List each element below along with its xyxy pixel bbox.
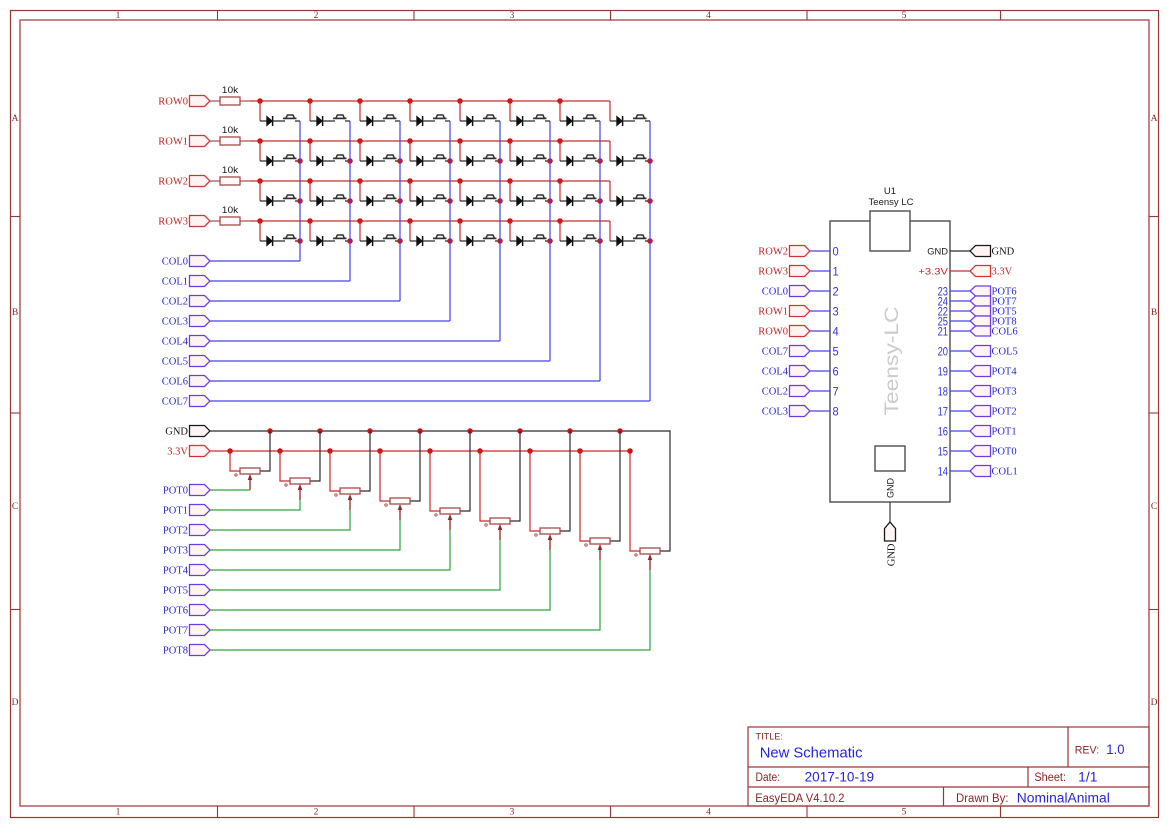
netflag 3.3V (pot bank) bbox=[190, 446, 211, 457]
svg-text:COL4: COL4 bbox=[162, 337, 189, 348]
junction switch output to COL1 bbox=[347, 158, 353, 164]
svg-text:ROW1: ROW1 bbox=[158, 137, 188, 148]
wire wiper to POT8 bbox=[210, 570, 650, 650]
junction ROW1 col2 bbox=[357, 138, 363, 144]
wire COL5 horizontal bbox=[210, 360, 550, 362]
wire drop ROW0 cell3 bbox=[409, 101, 411, 121]
wire wiper to POT6 bbox=[210, 550, 550, 610]
key switch S24 bbox=[633, 195, 650, 201]
wire ROW3 horizontal bus bbox=[250, 220, 610, 222]
junction 3.3V bus pot5 bbox=[477, 448, 483, 454]
junction switch output to COL6 bbox=[597, 198, 603, 204]
wire COL4 vertical bbox=[499, 121, 501, 341]
wire COL7 horizontal bbox=[210, 400, 650, 402]
U1 USB connector block bbox=[870, 211, 910, 251]
svg-text:8: 8 bbox=[833, 404, 839, 418]
potentiometer RP6 body bbox=[490, 518, 510, 524]
pin-1 marker RP7 bbox=[535, 534, 537, 536]
wire drop ROW0 cell6 bbox=[559, 101, 561, 121]
wire netflag COL7 to U1 pin 5 bbox=[810, 350, 830, 352]
key switch S23 bbox=[583, 195, 600, 201]
svg-text:21: 21 bbox=[938, 324, 949, 338]
wire drop ROW3 cell1 bbox=[309, 221, 311, 241]
diode D5 bbox=[460, 116, 485, 126]
junction switch output to COL6 bbox=[597, 158, 603, 164]
diode D18 bbox=[310, 196, 335, 206]
wire COL0 horizontal bbox=[210, 260, 300, 262]
netflag POT8 bbox=[190, 645, 211, 656]
wire U1 pin 21 to netflag COL6 bbox=[950, 330, 970, 332]
netflag COL7 (U1 left) bbox=[790, 346, 811, 357]
wire drop ROW2 cell1 bbox=[309, 181, 311, 201]
key switch S11 bbox=[383, 155, 400, 161]
junction ROW0 col6 bbox=[557, 98, 563, 104]
junction switch output to COL0 bbox=[297, 158, 303, 164]
wire ROW1 horizontal bus bbox=[250, 140, 610, 142]
wire 3.3V to RP2 bbox=[280, 451, 290, 481]
svg-text:TITLE:: TITLE: bbox=[756, 732, 783, 743]
svg-text:Date:: Date: bbox=[756, 772, 781, 784]
potentiometer RP4 body bbox=[390, 498, 410, 504]
svg-text:ROW2: ROW2 bbox=[758, 247, 788, 258]
wire drop ROW2 cell2 bbox=[359, 181, 361, 201]
svg-text:A: A bbox=[12, 114, 19, 124]
pin-1 marker RP5 bbox=[435, 514, 437, 516]
wiper arrow RP8 bbox=[598, 544, 603, 560]
wiper arrow RP5 bbox=[448, 514, 453, 530]
diode D7 bbox=[560, 116, 585, 126]
svg-text:New Schematic: New Schematic bbox=[760, 745, 863, 762]
diode D17 bbox=[260, 196, 285, 206]
junction ROW1 col5 bbox=[507, 138, 513, 144]
svg-text:10k: 10k bbox=[222, 165, 239, 175]
svg-text:COL2: COL2 bbox=[762, 387, 788, 398]
junction switch output to COL3 bbox=[447, 238, 453, 244]
wire COL2 vertical bbox=[399, 121, 401, 301]
svg-text:ROW2: ROW2 bbox=[158, 177, 188, 188]
resistor R4 10k bbox=[220, 217, 240, 225]
svg-text:1: 1 bbox=[116, 11, 121, 21]
wire COL1 vertical bbox=[349, 121, 351, 281]
svg-text:COL5: COL5 bbox=[992, 347, 1018, 358]
junction 3.3V bus pot4 bbox=[427, 448, 433, 454]
junction GND bus pot3 bbox=[417, 428, 423, 434]
wire GND bus bbox=[210, 431, 670, 551]
netflag COL7 bbox=[190, 396, 211, 407]
netflag COL5 (U1 right) bbox=[970, 346, 991, 357]
junction switch output to COL1 bbox=[347, 198, 353, 204]
key switch S21 bbox=[483, 195, 500, 201]
key switch S17 bbox=[283, 195, 300, 201]
potentiometer RP7 body bbox=[540, 528, 560, 534]
wire drop ROW3 cell3 bbox=[409, 221, 411, 241]
wire U1 pin 16 to netflag POT1 bbox=[950, 430, 970, 432]
wire drop ROW2 cell6 bbox=[559, 181, 561, 201]
netflag POT7 bbox=[190, 625, 211, 636]
svg-text:1: 1 bbox=[833, 264, 839, 278]
wire U1 pin GND to netflag GND bbox=[950, 250, 970, 252]
netflag COL0 bbox=[190, 256, 211, 267]
wire netflag to R4 bbox=[210, 220, 220, 222]
key switch S30 bbox=[533, 235, 550, 241]
netflag GND (pot bank) bbox=[190, 426, 211, 437]
wire drop ROW1 cell0 bbox=[259, 141, 261, 161]
wire 3.3V to RP4 bbox=[380, 451, 390, 501]
pin-1 marker RP3 bbox=[335, 494, 337, 496]
junction switch output to COL4 bbox=[497, 198, 503, 204]
wire 3.3V bus bbox=[210, 451, 640, 551]
wire netflag to R1 bbox=[210, 100, 220, 102]
wire COL5 vertical bbox=[549, 121, 551, 361]
diode D12 bbox=[410, 156, 435, 166]
junction ROW0 col3 bbox=[407, 98, 413, 104]
junction GND bus pot4 bbox=[467, 428, 473, 434]
diode D19 bbox=[360, 196, 385, 206]
key switch S28 bbox=[433, 235, 450, 241]
svg-text:1/1: 1/1 bbox=[1078, 770, 1097, 785]
svg-text:COL0: COL0 bbox=[162, 257, 188, 268]
junction ROW1 col1 bbox=[307, 138, 313, 144]
svg-text:3.3V: 3.3V bbox=[167, 447, 188, 458]
svg-text:D: D bbox=[12, 698, 19, 708]
svg-text:GND: GND bbox=[887, 543, 898, 566]
svg-text:COL1: COL1 bbox=[162, 277, 188, 288]
junction ROW1 col0 bbox=[257, 138, 263, 144]
svg-text:20: 20 bbox=[938, 344, 949, 358]
junction ROW0 col4 bbox=[457, 98, 463, 104]
junction ROW3 col0 bbox=[257, 218, 263, 224]
svg-text:U1: U1 bbox=[884, 186, 896, 197]
svg-text:4: 4 bbox=[833, 324, 839, 338]
wire COL3 horizontal bbox=[210, 320, 450, 322]
svg-text:POT4: POT4 bbox=[992, 367, 1018, 378]
junction GND bus pot1 bbox=[317, 428, 323, 434]
svg-text:1.0: 1.0 bbox=[1106, 742, 1124, 757]
diode D31 bbox=[560, 236, 585, 246]
diode D28 bbox=[410, 236, 435, 246]
wire drop ROW0 cell4 bbox=[459, 101, 461, 121]
junction ROW2 col5 bbox=[507, 178, 513, 184]
resistor R1 right pin stub bbox=[240, 100, 250, 102]
diode D10 bbox=[310, 156, 335, 166]
svg-text:C: C bbox=[1151, 502, 1157, 512]
wiper arrow RP7 bbox=[548, 534, 553, 550]
svg-text:POT6: POT6 bbox=[163, 606, 188, 617]
diode D24 bbox=[610, 196, 635, 206]
svg-text:10k: 10k bbox=[222, 125, 239, 135]
wire netflag COL3 to U1 pin 8 bbox=[810, 410, 830, 412]
diode D13 bbox=[460, 156, 485, 166]
svg-text:POT5: POT5 bbox=[163, 586, 188, 597]
pin-1 marker RP9 bbox=[635, 554, 637, 556]
svg-text:2: 2 bbox=[314, 11, 319, 21]
junction switch output to COL5 bbox=[547, 198, 553, 204]
wire ROW2 horizontal bus bbox=[250, 180, 610, 182]
netflag GND (U1 right) bbox=[970, 246, 991, 257]
svg-text:GND: GND bbox=[992, 247, 1015, 258]
wire wiper to POT2 bbox=[210, 510, 350, 530]
svg-text:10k: 10k bbox=[222, 205, 239, 215]
diode D27 bbox=[360, 236, 385, 246]
wire drop ROW3 cell7 bbox=[609, 221, 611, 241]
svg-text:ROW1: ROW1 bbox=[758, 307, 788, 318]
netflag POT8 (U1 right) bbox=[970, 316, 991, 326]
diode D22 bbox=[510, 196, 535, 206]
wire COL1 horizontal bbox=[210, 280, 350, 282]
diode D8 bbox=[610, 116, 635, 126]
svg-text:3: 3 bbox=[833, 304, 839, 318]
wire drop ROW0 cell0 bbox=[259, 101, 261, 121]
netflag ROW2 bbox=[190, 176, 211, 187]
netflag POT1 bbox=[190, 505, 211, 516]
resistor R2 10k bbox=[220, 137, 240, 145]
svg-text:3.3V: 3.3V bbox=[992, 267, 1013, 278]
netflag ROW2 (U1 left) bbox=[790, 246, 811, 257]
svg-text:2: 2 bbox=[833, 284, 839, 298]
netflag COL2 (U1 left) bbox=[790, 386, 811, 397]
netflag 3.3V (U1 right) bbox=[970, 266, 991, 277]
junction 3.3V bus pot8 bbox=[627, 448, 633, 454]
junction switch output to COL4 bbox=[497, 158, 503, 164]
svg-text:POT8: POT8 bbox=[163, 646, 188, 657]
svg-text:7: 7 bbox=[833, 384, 839, 398]
svg-text:+3.3V: +3.3V bbox=[918, 266, 948, 277]
junction switch output to COL2 bbox=[397, 198, 403, 204]
potentiometer RP9 body bbox=[640, 548, 660, 554]
wire U1 pin 14 to netflag COL1 bbox=[950, 470, 970, 472]
svg-text:A: A bbox=[1151, 114, 1158, 124]
wire drop ROW3 cell6 bbox=[559, 221, 561, 241]
netflag ROW0 (U1 left) bbox=[790, 326, 811, 337]
junction GND bus pot0 bbox=[267, 428, 273, 434]
resistor R4 right pin stub bbox=[240, 220, 250, 222]
diode D32 bbox=[610, 236, 635, 246]
wire GND to RP3 bbox=[360, 431, 370, 491]
netflag ROW1 (U1 left) bbox=[790, 306, 811, 317]
svg-text:POT0: POT0 bbox=[992, 447, 1017, 458]
key switch S3 bbox=[383, 115, 400, 121]
diode D26 bbox=[310, 236, 335, 246]
netflag POT3 bbox=[190, 545, 211, 556]
wire netflag COL0 to U1 pin 2 bbox=[810, 290, 830, 292]
potentiometer RP2 body bbox=[290, 478, 310, 484]
svg-text:Sheet:: Sheet: bbox=[1034, 772, 1066, 784]
diode D1 bbox=[260, 116, 285, 126]
wire COL6 vertical bbox=[599, 121, 601, 381]
key switch S9 bbox=[283, 155, 300, 161]
wire COL4 horizontal bbox=[210, 340, 500, 342]
wire GND to RP2 bbox=[310, 431, 320, 481]
diode D9 bbox=[260, 156, 285, 166]
svg-text:19: 19 bbox=[938, 364, 949, 378]
potentiometer RP5 body bbox=[440, 508, 460, 514]
junction 3.3V bus pot6 bbox=[527, 448, 533, 454]
U1 inner square block bbox=[875, 446, 905, 471]
wiper arrow RP4 bbox=[398, 504, 403, 520]
svg-text:GND: GND bbox=[927, 246, 948, 257]
diode D15 bbox=[560, 156, 585, 166]
key switch S2 bbox=[333, 115, 350, 121]
svg-text:COL5: COL5 bbox=[162, 357, 188, 368]
svg-text:COL7: COL7 bbox=[762, 347, 788, 358]
key switch S19 bbox=[383, 195, 400, 201]
wire U1 pin +3.3V to netflag 3.3V bbox=[950, 270, 970, 272]
svg-text:15: 15 bbox=[938, 444, 949, 458]
svg-text:ROW0: ROW0 bbox=[758, 327, 788, 338]
wire netflag ROW2 to U1 pin 0 bbox=[810, 250, 830, 252]
key switch S20 bbox=[433, 195, 450, 201]
netflag GND (U1 bottom) bbox=[885, 522, 896, 541]
svg-text:Teensy-LC: Teensy-LC bbox=[881, 307, 903, 416]
svg-text:COL7: COL7 bbox=[162, 397, 188, 408]
netflag POT4 bbox=[190, 565, 211, 576]
key switch S31 bbox=[583, 235, 600, 241]
wire GND to RP8 bbox=[610, 431, 620, 541]
junction ROW0 col0 bbox=[257, 98, 263, 104]
wire drop ROW2 cell5 bbox=[509, 181, 511, 201]
diode D6 bbox=[510, 116, 535, 126]
junction switch output to COL4 bbox=[497, 238, 503, 244]
key switch S32 bbox=[633, 235, 650, 241]
netflag ROW0 bbox=[190, 96, 211, 107]
netflag POT2 (U1 right) bbox=[970, 406, 991, 417]
junction ROW2 col2 bbox=[357, 178, 363, 184]
netflag ROW3 bbox=[190, 216, 211, 227]
op U1 Teensy LC body bbox=[830, 221, 950, 502]
pin-1 marker RP4 bbox=[385, 504, 387, 506]
wire wiper to POT4 bbox=[210, 530, 450, 570]
netflag POT7 (U1 right) bbox=[970, 296, 991, 306]
key switch S25 bbox=[283, 235, 300, 241]
wire GND to RP1 bbox=[260, 431, 270, 471]
wiper arrow RP6 bbox=[498, 524, 503, 540]
wire netflag to R3 bbox=[210, 180, 220, 182]
svg-text:COL2: COL2 bbox=[162, 297, 188, 308]
diode D14 bbox=[510, 156, 535, 166]
key switch S5 bbox=[483, 115, 500, 121]
svg-text:REV:: REV: bbox=[1075, 745, 1100, 757]
wire wiper to POT7 bbox=[210, 560, 600, 630]
junction ROW0 col1 bbox=[307, 98, 313, 104]
pin-1 marker RP8 bbox=[585, 544, 587, 546]
wire U1 pin 15 to netflag POT0 bbox=[950, 450, 970, 452]
key switch S27 bbox=[383, 235, 400, 241]
wire drop ROW3 cell0 bbox=[259, 221, 261, 241]
resistor R3 right pin stub bbox=[240, 180, 250, 182]
junction ROW0 col5 bbox=[507, 98, 513, 104]
junction 3.3V bus pot7 bbox=[577, 448, 583, 454]
wire ROW0 horizontal bus bbox=[250, 100, 610, 102]
key switch S6 bbox=[533, 115, 550, 121]
junction switch output to COL5 bbox=[547, 158, 553, 164]
svg-text:GND: GND bbox=[886, 478, 896, 499]
diode D21 bbox=[460, 196, 485, 206]
junction switch output to COL5 bbox=[547, 238, 553, 244]
svg-text:5: 5 bbox=[833, 344, 839, 358]
junction ROW1 col3 bbox=[407, 138, 413, 144]
wire wiper to POT1 bbox=[210, 500, 300, 510]
junction ROW2 col6 bbox=[557, 178, 563, 184]
junction ROW3 col1 bbox=[307, 218, 313, 224]
wire COL3 vertical bbox=[449, 121, 451, 321]
junction 3.3V bus pot1 bbox=[277, 448, 283, 454]
junction switch output to COL6 bbox=[597, 238, 603, 244]
svg-text:COL6: COL6 bbox=[992, 327, 1018, 338]
svg-text:1: 1 bbox=[116, 808, 121, 818]
junction GND bus pot2 bbox=[367, 428, 373, 434]
key switch S1 bbox=[283, 115, 300, 121]
svg-text:10k: 10k bbox=[222, 85, 239, 95]
svg-text:GND: GND bbox=[165, 427, 188, 438]
key switch S14 bbox=[533, 155, 550, 161]
junction switch output to COL7 bbox=[647, 158, 653, 164]
netflag COL6 bbox=[190, 376, 211, 387]
junction ROW3 col2 bbox=[357, 218, 363, 224]
key switch S12 bbox=[433, 155, 450, 161]
key switch S15 bbox=[583, 155, 600, 161]
junction switch output to COL7 bbox=[647, 198, 653, 204]
wire drop ROW1 cell7 bbox=[609, 141, 611, 161]
netflag POT0 bbox=[190, 485, 211, 496]
svg-text:COL3: COL3 bbox=[762, 407, 788, 418]
svg-text:4: 4 bbox=[706, 808, 711, 818]
junction ROW1 col4 bbox=[457, 138, 463, 144]
wire drop ROW0 cell7 bbox=[609, 101, 611, 121]
svg-text:3: 3 bbox=[510, 808, 515, 818]
wire drop ROW1 cell4 bbox=[459, 141, 461, 161]
svg-text:6: 6 bbox=[833, 364, 839, 378]
potentiometer RP3 body bbox=[340, 488, 360, 494]
diode D29 bbox=[460, 236, 485, 246]
wire U1 bottom GND pin bbox=[889, 502, 891, 522]
junction switch output to COL2 bbox=[397, 238, 403, 244]
junction ROW1 col6 bbox=[557, 138, 563, 144]
netflag COL0 (U1 left) bbox=[790, 286, 811, 297]
netflag POT4 (U1 right) bbox=[970, 366, 991, 377]
key switch S8 bbox=[633, 115, 650, 121]
junction GND bus pot6 bbox=[567, 428, 573, 434]
svg-text:0: 0 bbox=[833, 244, 839, 258]
wire netflag COL4 to U1 pin 6 bbox=[810, 370, 830, 372]
wire drop ROW2 cell0 bbox=[259, 181, 261, 201]
pin-1 marker RP2 bbox=[285, 484, 287, 486]
wire drop ROW1 cell5 bbox=[509, 141, 511, 161]
svg-text:14: 14 bbox=[938, 464, 949, 478]
svg-text:18: 18 bbox=[938, 384, 949, 398]
diode D3 bbox=[360, 116, 385, 126]
wire drop ROW2 cell7 bbox=[609, 181, 611, 201]
junction ROW2 col4 bbox=[457, 178, 463, 184]
svg-text:POT3: POT3 bbox=[163, 546, 188, 557]
junction ROW3 col6 bbox=[557, 218, 563, 224]
svg-text:2017-10-19: 2017-10-19 bbox=[805, 770, 875, 785]
junction switch output to COL3 bbox=[447, 198, 453, 204]
wire U1 pin 23 to netflag POT6 bbox=[950, 290, 970, 292]
wire drop ROW1 cell1 bbox=[309, 141, 311, 161]
wire netflag COL2 to U1 pin 7 bbox=[810, 390, 830, 392]
netflag POT5 (U1 right) bbox=[970, 306, 991, 316]
wire U1 pin 18 to netflag POT3 bbox=[950, 390, 970, 392]
junction ROW3 col5 bbox=[507, 218, 513, 224]
wire U1 pin 19 to netflag POT4 bbox=[950, 370, 970, 372]
svg-text:COL1: COL1 bbox=[992, 467, 1018, 478]
wire U1 pin 22 to netflag POT5 bbox=[950, 310, 970, 312]
wire 3.3V to RP8 bbox=[580, 451, 590, 541]
netflag COL6 (U1 right) bbox=[970, 326, 991, 336]
wire netflag ROW3 to U1 pin 1 bbox=[810, 270, 830, 272]
key switch S4 bbox=[433, 115, 450, 121]
junction switch output to COL1 bbox=[347, 238, 353, 244]
